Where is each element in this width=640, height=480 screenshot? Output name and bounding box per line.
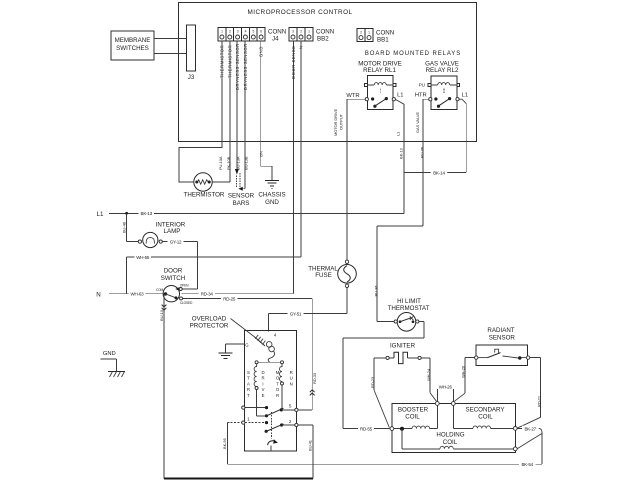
motor winding header xyxy=(257,361,282,363)
svg-text:OVERLOAD: OVERLOAD xyxy=(192,315,227,322)
start winding xyxy=(254,364,256,387)
drive motor box xyxy=(244,331,296,452)
wire membrane to J3 (upper) xyxy=(154,38,187,40)
centrifugal actuator xyxy=(271,412,273,439)
svg-text:COIL: COIL xyxy=(405,414,420,421)
svg-text:N: N xyxy=(96,291,100,298)
wire GY-12 lamp to door switch open xyxy=(162,242,197,289)
microprocessor control board box xyxy=(179,3,477,142)
svg-text:CONN: CONN xyxy=(376,30,394,37)
motor winding labels xyxy=(247,370,293,398)
svg-text:RD-34: RD-34 xyxy=(201,292,214,297)
svg-text:OPEN: OPEN xyxy=(180,284,189,288)
svg-text:BU-48: BU-48 xyxy=(121,221,126,233)
svg-text:LAMP: LAMP xyxy=(164,228,181,235)
connector symbol on motor-5 riser xyxy=(310,390,315,396)
motor start switch xyxy=(242,406,245,409)
svg-text:RD-23: RD-23 xyxy=(370,376,375,388)
svg-text:J4: J4 xyxy=(272,36,279,43)
svg-text:CONN: CONN xyxy=(268,29,286,36)
svg-text:BK-56: BK-56 xyxy=(222,438,227,449)
thermistor xyxy=(194,173,212,191)
svg-text:WH-26: WH-26 xyxy=(460,365,465,378)
wire J4 pin3 to sensor bar xyxy=(236,41,238,170)
svg-text:MICROPROCESSOR CONTROL: MICROPROCESSOR CONTROL xyxy=(247,9,352,16)
svg-text:CHASSIS: CHASSIS xyxy=(258,192,285,199)
svg-text:PK-10B: PK-10B xyxy=(226,156,231,170)
overload protector element xyxy=(231,319,255,337)
wire BU-41 from motor terminal 2 xyxy=(312,425,314,478)
svg-text:HOLDING: HOLDING xyxy=(436,431,464,438)
radiant sensor right wire RD-21 xyxy=(530,358,541,418)
sensor bar 2 xyxy=(239,173,241,189)
RL2 contacts xyxy=(429,98,432,101)
svg-text:RD-21: RD-21 xyxy=(536,395,541,407)
svg-text:R: R xyxy=(261,376,264,381)
svg-text:THERMOSTAT: THERMOSTAT xyxy=(388,305,430,312)
wire N line WH-63 xyxy=(109,293,166,295)
svg-text:GND: GND xyxy=(259,46,264,57)
RL1 coil xyxy=(374,83,386,85)
gas valve coil box xyxy=(392,404,516,453)
svg-text:BK-13: BK-13 xyxy=(141,211,153,216)
svg-text:WH-26: WH-26 xyxy=(439,384,453,389)
svg-text:BU-41: BU-41 xyxy=(307,439,312,451)
wire BU-48 to interior lamp xyxy=(127,213,139,241)
svg-text:BU-13B: BU-13B xyxy=(243,156,248,170)
svg-text:L1: L1 xyxy=(462,93,468,99)
wire RD-25 from closed contact xyxy=(183,298,313,410)
svg-text:R: R xyxy=(290,370,293,375)
svg-text:N: N xyxy=(290,381,293,386)
svg-text:RD-25: RD-25 xyxy=(223,296,236,301)
svg-text:WH-55: WH-55 xyxy=(136,255,150,260)
WH-26 label with stubs above coil box xyxy=(437,389,453,402)
svg-text:U: U xyxy=(290,376,293,381)
radiant sensor left wire WH-26 xyxy=(465,358,475,394)
svg-text:BOARD MOUNTED RELAYS: BOARD MOUNTED RELAYS xyxy=(365,51,461,57)
svg-text:WH-24: WH-24 xyxy=(426,368,431,381)
wire RD-55 to booster coil xyxy=(343,427,390,429)
wire J4 pin6 to chassis gnd xyxy=(261,41,272,180)
svg-text:CONN: CONN xyxy=(316,29,334,36)
svg-text:L1: L1 xyxy=(97,211,104,218)
connector J3 xyxy=(187,25,196,71)
svg-text:T: T xyxy=(247,393,250,398)
RL2 coil xyxy=(438,83,450,85)
svg-text:L1: L1 xyxy=(397,93,403,99)
wire RL1 WTR to thermal fuse (motor drive output) xyxy=(347,99,365,260)
svg-text:IGNITER: IGNITER xyxy=(390,342,416,349)
svg-text:GAS VALVE: GAS VALVE xyxy=(415,112,420,133)
svg-text:PROTECTOR: PROTECTOR xyxy=(190,323,229,330)
wire membrane to J3 (lower) xyxy=(154,53,187,55)
junction L1 / lamp xyxy=(125,212,128,215)
svg-text:I: I xyxy=(262,381,263,386)
svg-text:WH-63: WH-63 xyxy=(130,292,144,297)
door switch arm (to closed) xyxy=(166,294,178,298)
membrane switches box xyxy=(111,31,154,60)
svg-text:D: D xyxy=(261,370,264,375)
svg-text:DRYNESS SENSOR: DRYNESS SENSOR xyxy=(235,43,240,90)
chassis ground symbol xyxy=(265,180,279,188)
wire thermal fuse to motor (GY-51) xyxy=(269,288,347,332)
diagonal to holding coil terminal xyxy=(517,434,542,449)
wire BB2 pin2 (N sense) down xyxy=(300,41,302,257)
svg-text:J3: J3 xyxy=(188,74,195,81)
svg-text:MOTOR DRIVE: MOTOR DRIVE xyxy=(333,109,338,136)
svg-text:COM: COM xyxy=(156,288,164,292)
wire J4 pin2 to thermistor xyxy=(212,41,230,182)
svg-text:COIL: COIL xyxy=(443,439,458,446)
wire L1 line BK-13 xyxy=(109,212,404,214)
wire BK-27 from secondary coil xyxy=(517,427,539,429)
svg-text:R: R xyxy=(276,393,279,398)
connector BB2 xyxy=(289,28,313,42)
run winding xyxy=(280,364,283,382)
svg-text:PU-36: PU-36 xyxy=(373,285,378,297)
svg-text:BK-27: BK-27 xyxy=(524,426,536,431)
wire N bottom line xyxy=(164,477,313,479)
svg-text:T: T xyxy=(276,381,279,386)
svg-text:A: A xyxy=(247,381,250,386)
svg-text:S: S xyxy=(247,370,250,375)
svg-text:BOOSTER: BOOSTER xyxy=(398,406,429,413)
wire WH-55 (N sense tap) xyxy=(127,257,301,294)
svg-text:BB1: BB1 xyxy=(377,37,389,44)
svg-text:SWITCH: SWITCH xyxy=(161,275,185,282)
svg-text:HTR: HTR xyxy=(415,93,427,99)
wire BK-14 xyxy=(404,172,466,174)
svg-text:GY-51: GY-51 xyxy=(290,311,302,316)
svg-text:RD-33: RD-33 xyxy=(312,372,317,384)
wire RD-34 to BB2 door sense xyxy=(182,293,294,295)
svg-text:BK-54: BK-54 xyxy=(521,462,533,467)
svg-text:BB2: BB2 xyxy=(317,36,329,43)
wire door switch COM down to N bottom line xyxy=(163,294,165,478)
svg-text:DRYNESS SENSOR: DRYNESS SENSOR xyxy=(243,43,248,90)
svg-text:T: T xyxy=(247,376,250,381)
wire hi limit right to igniter loop xyxy=(343,322,424,429)
svg-text:PU-10A: PU-10A xyxy=(218,156,223,170)
svg-text:RADIANT: RADIANT xyxy=(487,327,514,334)
svg-text:RD-55: RD-55 xyxy=(360,426,373,431)
connector BB1 xyxy=(357,29,373,42)
wire BB2 pin3 (door sense) down xyxy=(292,41,294,294)
connector symbol on COM wire xyxy=(162,305,167,311)
connector J4 xyxy=(218,28,265,42)
svg-text:MEMBRANE: MEMBRANE xyxy=(115,37,151,44)
svg-text:GND: GND xyxy=(265,199,279,206)
svg-text:GN: GN xyxy=(259,151,264,157)
svg-text:SWITCHES: SWITCHES xyxy=(116,45,149,52)
svg-text:WTR: WTR xyxy=(346,93,359,99)
svg-text:E: E xyxy=(262,393,265,398)
svg-text:GND: GND xyxy=(103,351,116,357)
svg-text:PU: PU xyxy=(419,82,425,87)
wire J4 pin1 to thermistor xyxy=(179,41,222,182)
door switch closed contact xyxy=(180,297,183,300)
wire RL1 L1 down to L1 line xyxy=(395,99,404,104)
svg-text:CLOSED: CLOSED xyxy=(180,301,193,305)
svg-text:SENSOR: SENSOR xyxy=(228,193,255,200)
igniter diagonals to coils xyxy=(374,390,389,428)
svg-text:V: V xyxy=(262,387,265,392)
svg-text:GY-12: GY-12 xyxy=(170,240,182,245)
svg-text:RELAY RL2: RELAY RL2 xyxy=(426,67,459,74)
svg-text:BARS: BARS xyxy=(233,200,250,207)
svg-text:COIL: COIL xyxy=(478,414,493,421)
svg-text:BU-13A: BU-13A xyxy=(235,156,240,170)
wire J4 pin4 to sensor bar xyxy=(243,41,245,189)
svg-text:PU-36: PU-36 xyxy=(419,146,424,158)
sensor bar 1 xyxy=(236,176,238,188)
wire BK-56 / BK-54 bottom line xyxy=(227,423,542,465)
svg-text:R: R xyxy=(247,387,250,392)
svg-text:BU-10: BU-10 xyxy=(159,309,164,321)
svg-text:RELAY RL1: RELAY RL1 xyxy=(363,67,396,74)
RL1 contacts xyxy=(365,98,368,101)
svg-text:BK-14: BK-14 xyxy=(433,171,445,176)
svg-text:THERMISTOR: THERMISTOR xyxy=(184,192,225,199)
svg-text:M: M xyxy=(276,370,280,375)
svg-text:SENSOR: SENSOR xyxy=(489,334,516,341)
svg-text:DOOR: DOOR xyxy=(164,268,183,275)
svg-text:SECONDARY: SECONDARY xyxy=(465,406,504,413)
wire RL2 HTR down to hi-limit thermostat (gas valve) xyxy=(377,99,429,321)
svg-text:FUSE: FUSE xyxy=(315,272,332,279)
svg-text:BK-13: BK-13 xyxy=(399,148,404,159)
svg-text:OUTPUT: OUTPUT xyxy=(339,113,344,130)
wire RL2 L1 down to BK-14 xyxy=(459,99,466,103)
